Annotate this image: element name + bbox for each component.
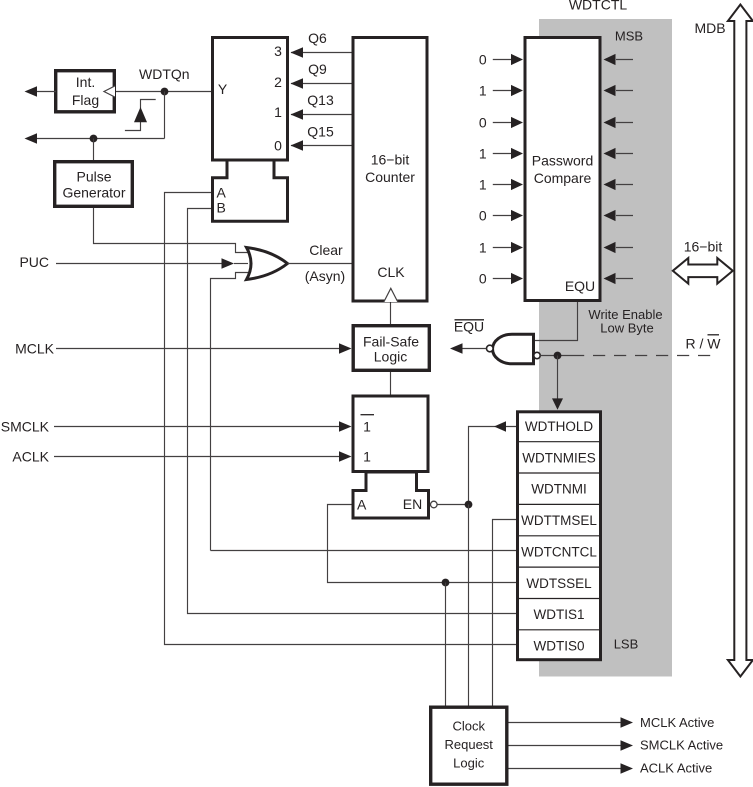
wire reset feed row to left arrow — [31, 138, 165, 140]
svg-text:(Asyn): (Asyn) — [305, 268, 345, 284]
password MDB-side arrow — [616, 215, 633, 217]
svg-text:ACLK Active: ACLK Active — [640, 761, 712, 776]
wire tap down to pulse generator — [93, 139, 95, 161]
wire WDTTMSEL row — [493, 520, 517, 707]
wire Q13 tap — [291, 114, 352, 116]
svg-text:16−bit: 16−bit — [371, 152, 410, 168]
svg-text:CLK: CLK — [377, 264, 405, 280]
svg-text:Password: Password — [532, 153, 593, 169]
password MDB-side arrow — [616, 247, 633, 249]
CLK edge wedge on counter — [384, 288, 398, 302]
wire EQUbar out of NAND — [462, 348, 486, 350]
svg-text:3: 3 — [274, 43, 282, 59]
wire R/W dashed line — [540, 355, 572, 357]
wire MCLK to fail-safe — [56, 348, 340, 350]
svg-text:1: 1 — [363, 419, 371, 435]
svg-text:SMCLK: SMCLK — [1, 419, 50, 435]
svg-text:WDTSSEL: WDTSSEL — [526, 576, 592, 591]
pulse generator box U_PG — [55, 162, 133, 207]
svg-text:WDTQn: WDTQn — [139, 66, 190, 82]
NAND gate U_NAND (write enable) — [493, 334, 534, 364]
wire Q9 tap — [291, 83, 352, 85]
svg-text:MCLK Active: MCLK Active — [640, 715, 714, 730]
OR gate U_OR (clear) — [247, 248, 288, 280]
svg-text:Q15: Q15 — [307, 123, 334, 139]
svg-text:MCLK: MCLK — [15, 340, 55, 356]
NAND inverted input bubble (R/W) — [534, 352, 540, 358]
wire WDTQn down to reset feed — [164, 92, 166, 139]
svg-text:Low Byte: Low Byte — [600, 321, 653, 336]
clock mux select box A/EN — [353, 472, 429, 518]
wire counter CLK to fail-safe — [390, 303, 392, 325]
arrow reset out (left) — [25, 133, 38, 143]
svg-text:Q9: Q9 — [308, 61, 327, 77]
16-bit counter block U_CNT — [353, 38, 427, 302]
svg-text:0: 0 — [479, 271, 487, 287]
wire MCLK Active output — [509, 722, 622, 724]
password compare block U_PWD — [525, 38, 600, 301]
svg-text:Fail-Safe: Fail-Safe — [363, 334, 419, 350]
16-bit horizontal double arrow — [673, 258, 733, 284]
svg-text:WDTNMI: WDTNMI — [531, 482, 586, 497]
svg-text:WDTHOLD: WDTHOLD — [525, 419, 593, 434]
svg-text:Q13: Q13 — [307, 92, 334, 108]
wire pulse generator output to OR gate — [94, 208, 248, 253]
wire fail-safe to clock mux — [390, 372, 392, 395]
wire Q6 tap — [291, 52, 352, 54]
svg-text:Logic: Logic — [374, 349, 407, 365]
arrow interrupt out (left) — [25, 86, 38, 96]
NAND output bubble — [487, 345, 494, 352]
svg-text:MSB: MSB — [615, 29, 643, 44]
wire SMCLK into mux — [54, 426, 340, 428]
svg-text:Counter: Counter — [365, 169, 415, 185]
svg-text:WDTIS0: WDTIS0 — [533, 639, 584, 654]
node WDTQn junction — [161, 88, 169, 96]
wire WDTSSEL vertical to clock request — [445, 583, 447, 707]
svg-text:1: 1 — [479, 146, 487, 162]
svg-text:Int.: Int. — [76, 74, 95, 90]
svg-text:EN: EN — [403, 496, 422, 512]
svg-text:WDTCTL: WDTCTL — [569, 0, 628, 13]
svg-text:A: A — [217, 185, 227, 201]
password MDB-side arrow — [616, 153, 633, 155]
wire write strobe down to register — [557, 356, 559, 401]
svg-text:PUC: PUC — [19, 254, 49, 270]
wire Q15 tap — [291, 145, 352, 147]
svg-text:1: 1 — [479, 83, 487, 99]
svg-text:Request: Request — [444, 737, 493, 752]
wire ACLK Active output — [509, 768, 622, 770]
svg-text:Flag: Flag — [72, 92, 99, 108]
interval mux select box A/B — [213, 160, 288, 221]
wire EN from WDTHOLD — [437, 427, 516, 505]
svg-text:EQU: EQU — [565, 278, 595, 294]
wire ACLK into mux — [54, 456, 340, 458]
svg-text:Clear: Clear — [309, 242, 343, 258]
wire WDTCNTCL row — [211, 550, 517, 552]
password MDB-side arrow — [616, 184, 633, 186]
wire A select from WDTSSEL — [328, 505, 517, 583]
svg-text:Logic: Logic — [453, 756, 485, 771]
wire clear to counter — [288, 263, 352, 265]
svg-text:A: A — [357, 497, 367, 513]
svg-text:B: B — [217, 199, 226, 215]
svg-text:MDB: MDB — [694, 20, 725, 36]
svg-text:ACLK: ACLK — [12, 449, 49, 465]
svg-text:1: 1 — [479, 177, 487, 193]
wire select B from WDTIS1 — [188, 209, 517, 614]
interval mux Y block U_MUX — [213, 38, 288, 161]
wire EQU output down to NAND input — [535, 302, 578, 341]
fail-safe logic box U_FS — [353, 326, 429, 371]
svg-text:Compare: Compare — [534, 170, 592, 186]
MDB bus double arrow — [728, 5, 753, 677]
password MDB-side arrow — [616, 59, 633, 61]
rising edge trigger symbol — [125, 100, 156, 131]
svg-text:WDTCNTCL: WDTCNTCL — [521, 544, 597, 559]
password MDB-side arrow — [616, 122, 633, 124]
wire EN vertical to clock request — [468, 505, 470, 707]
clock request logic box U_CRL — [431, 707, 507, 784]
svg-text:0: 0 — [479, 208, 487, 224]
WDT control register bit-field stack — [518, 412, 601, 660]
svg-text:LSB: LSB — [614, 637, 639, 652]
interrupt flag box U_IF — [56, 71, 115, 112]
wire WDTQn: Y output to Int.Flag — [116, 91, 211, 93]
svg-text:Pulse: Pulse — [76, 169, 111, 185]
EN inverted bubble — [431, 501, 438, 508]
svg-text:0: 0 — [479, 115, 487, 131]
svg-text:0: 0 — [274, 138, 282, 154]
password MDB-side arrow — [616, 90, 633, 92]
svg-text:1: 1 — [363, 449, 371, 465]
dynamic-input symbol on Int.Flag — [104, 86, 115, 97]
svg-text:1: 1 — [479, 240, 487, 256]
svg-text:16−bit: 16−bit — [684, 239, 723, 255]
wire OR gate lower input from WDTCNTCL — [211, 273, 249, 551]
svg-text:Q6: Q6 — [308, 30, 327, 46]
svg-text:WDTNMIES: WDTNMIES — [522, 450, 596, 465]
svg-text:EQU: EQU — [454, 319, 484, 335]
password MDB-side arrow — [616, 278, 633, 280]
clock source mux U_CKMUX — [353, 396, 428, 472]
svg-text:2: 2 — [274, 74, 282, 90]
node WDTSSEL to clock request — [442, 579, 450, 587]
svg-text:WDTTMSEL: WDTTMSEL — [521, 513, 597, 528]
svg-text:0: 0 — [479, 52, 487, 68]
wire select A from WDTIS0 — [165, 193, 517, 645]
node EN junction to clock request — [465, 501, 473, 509]
svg-text:1: 1 — [274, 104, 282, 120]
svg-text:Clock: Clock — [452, 719, 485, 734]
wire SMCLK Active output — [509, 745, 622, 747]
WDTCTL register gray background — [539, 19, 672, 677]
wire Int.Flag output to left — [31, 91, 56, 93]
node pulse generator tap — [90, 135, 98, 143]
svg-text:Generator: Generator — [62, 185, 125, 201]
node write strobe junction — [554, 352, 562, 360]
svg-text:R / W: R / W — [686, 336, 722, 352]
svg-text:SMCLK Active: SMCLK Active — [640, 738, 723, 753]
svg-text:Y: Y — [218, 81, 228, 97]
svg-text:WDTIS1: WDTIS1 — [533, 607, 584, 622]
wire PUC into OR gate — [56, 263, 225, 265]
